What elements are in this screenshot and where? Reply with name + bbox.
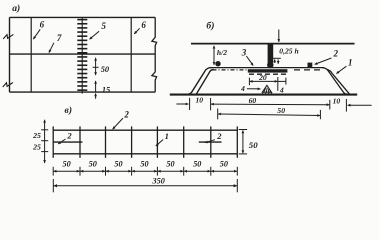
svg-text:1: 1 <box>348 58 353 68</box>
svg-text:50: 50 <box>140 159 148 168</box>
svg-text:2: 2 <box>332 49 338 59</box>
svg-text:4: 4 <box>279 85 284 94</box>
svg-text:50: 50 <box>114 159 122 168</box>
svg-text:50: 50 <box>101 65 110 74</box>
svg-text:50: 50 <box>63 159 71 168</box>
svg-text:25: 25 <box>32 143 41 152</box>
svg-text:20: 20 <box>258 73 267 82</box>
svg-text:0,25 h: 0,25 h <box>279 47 298 56</box>
svg-text:10: 10 <box>196 96 204 105</box>
svg-text:4: 4 <box>240 84 245 93</box>
svg-text:2: 2 <box>66 131 72 141</box>
svg-text:15: 15 <box>102 86 110 95</box>
svg-text:5: 5 <box>101 21 106 31</box>
svg-text:50: 50 <box>166 159 174 168</box>
svg-text:1: 1 <box>165 131 169 141</box>
svg-text:h/2: h/2 <box>217 48 227 57</box>
svg-text:а): а) <box>12 3 20 14</box>
svg-text:2: 2 <box>216 131 222 141</box>
svg-text:в): в) <box>65 105 72 116</box>
svg-text:б): б) <box>206 20 214 31</box>
svg-text:2: 2 <box>123 110 129 120</box>
svg-text:350: 350 <box>152 177 165 186</box>
svg-text:25: 25 <box>32 131 41 140</box>
svg-text:50: 50 <box>89 159 97 168</box>
svg-text:6: 6 <box>40 19 45 29</box>
svg-text:50: 50 <box>249 140 258 150</box>
svg-text:50: 50 <box>193 159 201 168</box>
svg-text:60: 60 <box>249 96 257 105</box>
svg-text:50: 50 <box>277 106 285 115</box>
svg-text:3: 3 <box>241 47 247 57</box>
svg-text:6: 6 <box>141 20 146 30</box>
svg-text:50: 50 <box>220 159 228 168</box>
svg-text:7: 7 <box>57 33 62 43</box>
svg-text:10: 10 <box>333 96 341 105</box>
